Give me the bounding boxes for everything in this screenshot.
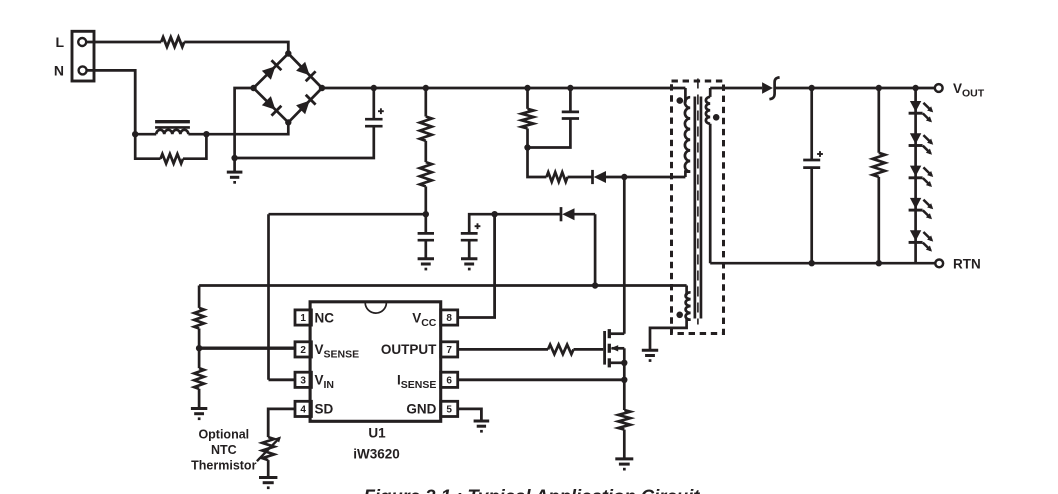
node rail C1 — [371, 85, 377, 91]
svg-text:ISENSE: ISENSE — [397, 373, 436, 392]
svg-text:7: 7 — [446, 345, 452, 356]
ground C3 — [461, 259, 477, 271]
svg-text:4: 4 — [300, 405, 306, 416]
ground aux — [642, 350, 658, 362]
pin label VSENSE — [315, 342, 360, 361]
svg-text:6: 6 — [446, 375, 452, 386]
wire pin7 OUTPUT — [458, 348, 548, 351]
capacitor C4 (clamp) — [528, 88, 580, 148]
capacitor C1 bulk — [365, 88, 384, 126]
thermistor RT1 — [257, 436, 281, 461]
diode D3 (clamp) — [593, 170, 625, 184]
node source — [621, 360, 627, 366]
wire bypass left — [135, 134, 160, 159]
label Optional NTC Thermistor — [191, 427, 256, 472]
primary phase dot — [677, 97, 684, 104]
terminal RTN — [935, 260, 943, 268]
label U1 — [368, 425, 386, 440]
wire D2 to aux — [594, 214, 597, 285]
node bridge right — [319, 85, 325, 91]
wire LED string — [914, 88, 917, 263]
node drain — [621, 174, 627, 180]
node bridge bottom — [285, 119, 291, 125]
ground C2 — [418, 259, 434, 271]
aux winding — [199, 286, 690, 351]
node LED top — [912, 85, 918, 91]
resistor R5 (clamp) — [522, 88, 534, 148]
pin label OUTPUT — [381, 342, 437, 357]
pin 2 square — [295, 342, 311, 357]
wire aux to divider — [198, 286, 201, 308]
LED D8 — [909, 198, 934, 219]
pin label NC — [315, 310, 335, 325]
wire RT1 to ground — [267, 460, 270, 477]
wire R8 to node — [198, 329, 201, 349]
label N — [54, 63, 64, 79]
LED D5 — [909, 101, 934, 122]
bridge diode D1c (left-bottom) — [262, 96, 282, 116]
svg-text:Optional: Optional — [198, 427, 249, 441]
ground divider — [191, 409, 207, 421]
node rail snubber R — [524, 85, 530, 91]
wire fuse to bridge top — [184, 42, 288, 54]
wire L to fuse — [86, 41, 161, 44]
svg-text:VOUT: VOUT — [953, 81, 985, 100]
label RTN — [953, 256, 981, 271]
transformer T1 shield box — [672, 81, 724, 334]
pin 6 square — [441, 372, 458, 387]
svg-text:VSENSE: VSENSE — [315, 342, 360, 361]
node VIN — [423, 211, 429, 217]
svg-text:iW3620: iW3620 — [353, 446, 400, 461]
ground pin5 — [474, 421, 490, 433]
resistor R7 (output) — [873, 88, 885, 263]
svg-text:VCC: VCC — [412, 310, 437, 329]
LED D9 — [909, 230, 934, 251]
LED D6 — [909, 133, 934, 154]
pin 8 square — [441, 310, 458, 325]
wire VSENSE to pin2 — [199, 347, 295, 350]
resistor R11 (current sense) — [618, 380, 630, 459]
wire R10 to gate — [574, 348, 604, 351]
wire R3-R4 — [424, 141, 427, 162]
capacitor C3 (VCC) — [461, 214, 495, 258]
node RTN resistor — [876, 260, 882, 266]
ground input — [227, 158, 243, 184]
svg-text:OUTPUT: OUTPUT — [381, 342, 437, 357]
wire main rail — [322, 87, 685, 90]
aux phase dot — [676, 312, 683, 319]
capacitor C2 (VIN filter) — [418, 214, 434, 258]
transformer core — [695, 79, 701, 325]
pin 1 square — [295, 310, 311, 325]
wire VCC to pin8 — [458, 214, 495, 317]
svg-text:Thermistor: Thermistor — [191, 458, 256, 472]
wire pin4 SD — [268, 409, 295, 437]
svg-text:L: L — [55, 34, 64, 50]
resistor R4 (VIN divider lower) — [420, 162, 432, 214]
pin 3 square — [295, 372, 311, 387]
node output cap — [809, 85, 815, 91]
label iW3620 — [353, 446, 400, 461]
pin label GND — [406, 402, 436, 417]
svg-text:5: 5 — [446, 405, 452, 416]
resistor R6 (clamp series) — [547, 172, 568, 182]
pin label VIN — [315, 373, 335, 392]
label VOUT — [953, 81, 985, 100]
svg-text:8: 8 — [446, 313, 452, 324]
svg-text:3: 3 — [300, 375, 306, 386]
bridge diode D1d (bottom-right) — [296, 95, 316, 115]
common-mode choke L1 — [135, 122, 206, 135]
capacitor C5 (output) — [803, 88, 823, 263]
wire pin3 VIN — [269, 378, 296, 381]
primary winding — [685, 88, 690, 177]
svg-text:Figure 3.1 : Typical Applicati: Figure 3.1 : Typical Application Circuit — [364, 486, 701, 494]
wire RTN rail — [710, 262, 935, 265]
secondary phase dot — [713, 114, 720, 121]
node VSENSE — [196, 345, 202, 351]
bridge edge wires BR1 — [254, 54, 323, 123]
svg-text:N: N — [54, 63, 64, 79]
svg-text:RTN: RTN — [953, 256, 981, 271]
label L — [55, 34, 64, 50]
node output R top — [876, 85, 882, 91]
terminal VOUT — [935, 84, 943, 92]
node clamp — [524, 144, 530, 150]
op-amp U1 body — [310, 302, 441, 422]
resistor bypass R2 — [161, 154, 184, 164]
node bridge left — [250, 85, 256, 91]
node RTN cap — [809, 260, 815, 266]
resistor R3 (VIN divider upper) — [420, 88, 432, 141]
svg-text:1: 1 — [300, 313, 306, 324]
bridge diode D1b (top-right) — [296, 62, 316, 82]
wire drain to primary — [624, 176, 685, 179]
resistor R8 (FB upper) — [194, 308, 204, 329]
node aux-D2 — [592, 282, 598, 288]
node rail snubber C — [567, 85, 573, 91]
wire ground return to C1 — [235, 127, 374, 158]
LED D7 — [909, 166, 934, 187]
wire pin6 ISENSE — [458, 378, 625, 381]
ground R11 — [615, 459, 633, 471]
fuse F1 — [161, 37, 184, 47]
wire source to ISENSE — [623, 363, 626, 380]
pin label ISENSE — [397, 373, 436, 392]
terminal block J1 (L/N input) — [72, 31, 94, 81]
resistor R9 (FB lower) — [194, 348, 204, 408]
wire R6 to D3 — [568, 176, 593, 179]
node choke right — [203, 131, 209, 137]
wire pin5 GND — [458, 409, 482, 421]
node rail divider — [423, 85, 429, 91]
pin 5 square — [441, 401, 458, 416]
svg-text:SD: SD — [315, 402, 334, 417]
pin 4 square — [295, 401, 311, 416]
ground thermistor — [259, 478, 277, 490]
svg-text:NTC: NTC — [211, 443, 237, 457]
svg-text:U1: U1 — [368, 425, 386, 440]
node primary ground — [231, 155, 237, 161]
wire bypass right — [183, 134, 206, 159]
bridge diode D1a (left-top) — [262, 60, 282, 80]
pin label SD — [315, 402, 334, 417]
svg-text:GND: GND — [406, 402, 436, 417]
svg-text:NC: NC — [315, 310, 335, 325]
node choke left — [132, 131, 138, 137]
wire bridge left to ground — [235, 88, 254, 158]
wire N to choke — [87, 70, 136, 134]
wire VIN vertical — [267, 214, 270, 380]
transistor Q1 MOSFET — [605, 329, 625, 367]
wire choke to bridge bottom — [206, 122, 288, 134]
resistor R10 (gate) — [548, 345, 574, 355]
wire VIN line — [269, 213, 426, 216]
secondary winding — [706, 88, 710, 263]
wire VOUT rail — [775, 87, 935, 90]
wire clamp down — [528, 148, 547, 178]
pin 7 square — [441, 342, 458, 357]
svg-text:VIN: VIN — [315, 373, 335, 392]
node ISENSE — [621, 377, 627, 383]
pin label VCC — [412, 310, 437, 329]
wire secondary to D4 — [710, 87, 762, 90]
node bridge top — [285, 50, 291, 56]
schottky diode D4 — [762, 77, 780, 99]
wire drain down — [623, 177, 626, 334]
svg-text:2: 2 — [300, 345, 306, 356]
node VCC cap — [491, 211, 497, 217]
caption Figure 3.1 — [364, 486, 701, 494]
diode D2 (VCC rectifier) — [495, 207, 595, 221]
